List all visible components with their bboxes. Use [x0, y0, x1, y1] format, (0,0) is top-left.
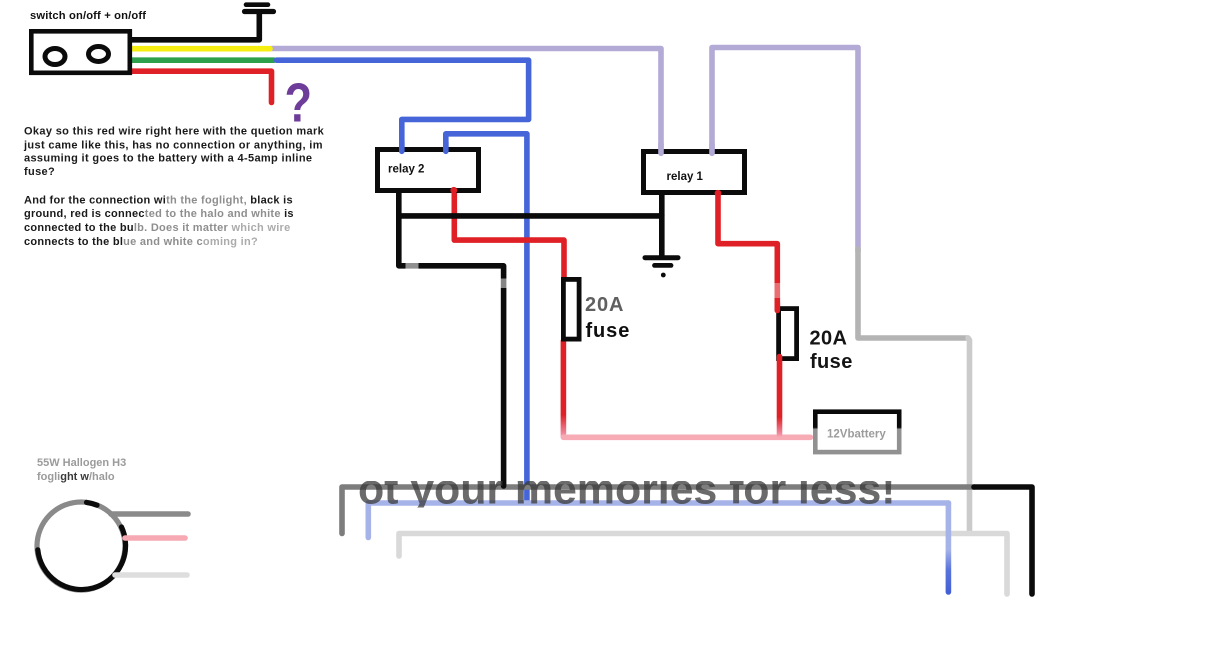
- svg-text:fuse: fuse: [586, 320, 631, 342]
- ground symbol bar 2: [655, 263, 672, 268]
- svg-text:fuse: fuse: [810, 351, 853, 373]
- wire gray bottom bus with left hook: [342, 487, 974, 534]
- wire pink bus to battery: [563, 434, 810, 440]
- relay 1 body: [644, 152, 745, 193]
- battery stub symbol bottom plate: [245, 9, 274, 14]
- svg-text:55W Hallogen H3: 55W Hallogen H3: [37, 457, 126, 469]
- wire green from switch: [128, 57, 274, 63]
- wire black connecting relay 2 path to relay 1 ground: [399, 213, 662, 219]
- ground symbol dot: [661, 273, 666, 278]
- wire light blue bottom bus with left hook: [368, 503, 948, 538]
- svg-text:20A: 20A: [810, 328, 848, 350]
- foglight lamp circle black arc: [38, 527, 126, 590]
- foglight lead light gray: [115, 572, 187, 578]
- wire black from switch to battery stub symbol: [128, 13, 259, 40]
- wire red relay 1 output to fuse 2: [718, 194, 777, 307]
- switch S1 hole 1: [45, 49, 65, 65]
- foglight lead gray: [111, 511, 188, 517]
- relay 1 pin stub 2 lavender: [709, 144, 715, 153]
- svg-text:relay 1: relay 1: [667, 171, 704, 183]
- wire light gray vertical from corner down to bottom bus: [968, 338, 970, 532]
- watermark smudge on fuse 2 red wire: [774, 283, 785, 298]
- svg-text:relay 2: relay 2: [388, 163, 424, 175]
- wire red stub over fuse 2 top border: [774, 303, 780, 311]
- relay 1 pin stub 1 lavender: [658, 144, 664, 153]
- wire blue net relay 2 pin 2 down long vertical: [446, 134, 527, 500]
- watermark white patch on black wire vertical: [500, 279, 507, 289]
- svg-text:fuse?: fuse?: [24, 166, 55, 178]
- wire red below fuse 1 fading to pink: [561, 341, 567, 436]
- wire red relay 2 output to fuse 1: [454, 191, 564, 278]
- relay 2 pin stub 2 blue: [443, 142, 449, 151]
- fuse 2 body: [779, 309, 797, 359]
- svg-text:connects to the blue and white: connects to the blue and white coming in…: [24, 236, 258, 248]
- svg-text:switch on/off + on/off: switch on/off + on/off: [30, 10, 146, 22]
- battery stub symbol top plate: [246, 2, 268, 7]
- wire lavender net from switch yellow terminal to relay 1 pin 1: [272, 49, 661, 148]
- ground symbol bar 1: [645, 255, 678, 260]
- wire lavender net relay 1 pin 2 up and right: [712, 48, 858, 252]
- wire gray continuation of lavender net down right of fuse 2: [858, 249, 968, 338]
- svg-text:12Vbattery: 12Vbattery: [827, 429, 886, 441]
- svg-text:just came like this, has no co: just came like this, has no connection o…: [23, 139, 323, 151]
- relay 2 body: [378, 150, 479, 191]
- wire blue fading vertical drop at right of light blue bus: [946, 503, 952, 592]
- svg-text:foglight w/halo: foglight w/halo: [37, 471, 115, 483]
- wire light gray bottom bus with left hook: [399, 534, 1007, 595]
- annotation paragraph 2: [24, 195, 294, 248]
- svg-text:ground, red is connected to th: ground, red is connected to the halo and…: [24, 208, 294, 220]
- wire yellow from switch: [128, 46, 270, 52]
- node red start on relay 1 bottom: [715, 190, 722, 197]
- watermark text band: [358, 466, 895, 514]
- svg-text:?: ?: [285, 71, 313, 133]
- wire black bottom right corner drop: [974, 487, 1032, 594]
- watermark smudge on fuse 2 right border: [791, 275, 801, 298]
- foglight lamp top black dash: [87, 502, 98, 505]
- svg-text:And for the connection with th: And for the connection with the foglight…: [24, 195, 293, 207]
- svg-text:Okay so this red wire right he: Okay so this red wire right here with th…: [24, 126, 325, 138]
- foglight lead pink: [125, 535, 185, 541]
- node red start on relay 2 bottom: [450, 187, 457, 194]
- foglight lamp circle gray part: [37, 502, 125, 590]
- fuse 1 body: [563, 279, 579, 339]
- wire blue net from switch green terminal to relay 2 pin 1: [277, 60, 529, 148]
- wire red below fuse 2 fading to pink: [777, 357, 783, 437]
- battery 12V body: [815, 412, 899, 452]
- watermark white patch on black wire horizontal: [406, 263, 419, 270]
- switch S1 body: [31, 31, 130, 73]
- svg-text:assuming it goes to the batter: assuming it goes to the battery with a 4…: [24, 153, 312, 165]
- switch S1 hole 2: [89, 47, 109, 62]
- svg-text:connected to the bulb. Does it: connected to the bulb. Does it matter wh…: [24, 222, 291, 234]
- annotation paragraph 1: [23, 126, 325, 179]
- wire red from switch with open end: [128, 71, 272, 102]
- svg-text:20A: 20A: [585, 294, 624, 316]
- relay 2 pin stub 1 blue: [399, 142, 405, 151]
- wire black relay 2 ground path down and right: [399, 192, 504, 486]
- wire black relay 1 to ground symbol: [659, 194, 665, 257]
